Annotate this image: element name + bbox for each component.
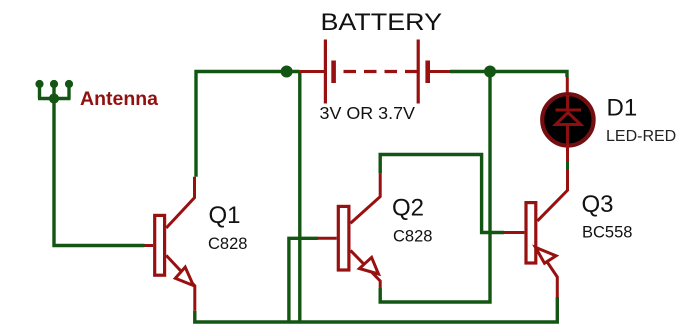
battery xyxy=(325,40,450,104)
wire bottom rail (Q1 emitter to Q3 emitter) xyxy=(195,297,558,322)
svg-text:Q2: Q2 xyxy=(392,195,424,222)
svg-text:Q3: Q3 xyxy=(582,191,614,218)
svg-text:BC558: BC558 xyxy=(582,224,632,242)
svg-text:Q1: Q1 xyxy=(209,202,241,229)
wire battery right to LED top xyxy=(450,72,567,78)
junction node at battery left xyxy=(281,66,293,78)
wire Q2 collector loop to Q3 base xyxy=(380,155,504,233)
wire junction down to Q2 emitter xyxy=(380,72,490,303)
wire Q2 base from bottom rail xyxy=(289,238,318,322)
svg-text:C828: C828 xyxy=(208,235,247,253)
wire antenna down and to Q1 base xyxy=(54,99,145,246)
wire LED cathode to Q3 collector xyxy=(566,162,569,169)
transistor Q1 xyxy=(145,177,195,311)
svg-text:D1: D1 xyxy=(607,95,638,122)
svg-text:Antenna: Antenna xyxy=(80,88,158,110)
LED D1 xyxy=(542,77,593,162)
battery lead left xyxy=(300,70,324,73)
svg-text:C828: C828 xyxy=(393,228,432,246)
transistor Q3 xyxy=(504,169,568,297)
svg-text:LED-RED: LED-RED xyxy=(606,128,676,145)
transistor Q2 xyxy=(318,173,380,288)
antenna xyxy=(35,80,73,104)
junction node at battery right xyxy=(484,66,496,78)
wire Q1 collector to top rail xyxy=(196,72,300,177)
wire top rail drop to bottom rail xyxy=(298,72,301,323)
svg-text:BATTERY: BATTERY xyxy=(321,9,443,36)
svg-text:3V OR 3.7V: 3V OR 3.7V xyxy=(320,103,416,123)
